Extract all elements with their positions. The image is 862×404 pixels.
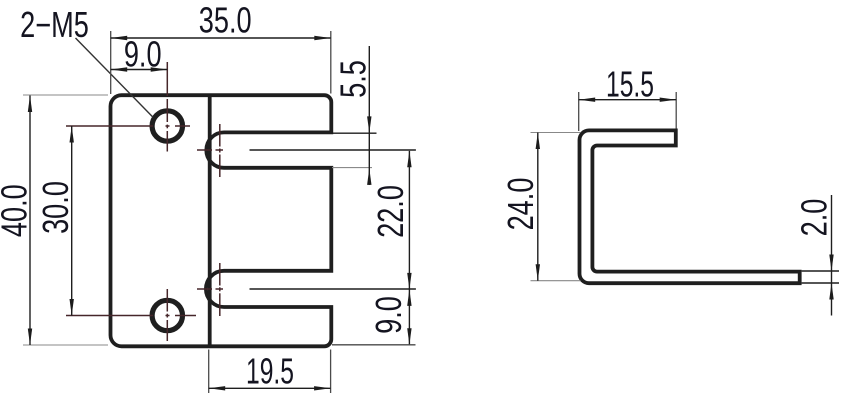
centerline slot2 vertical bbox=[219, 263, 221, 316]
dim line 9.0 top bbox=[111, 69, 168, 71]
dim 40.0 extension bottom bbox=[23, 344, 108, 346]
svg-text:2.0: 2.0 bbox=[794, 199, 835, 237]
svg-text:5.5: 5.5 bbox=[333, 60, 374, 98]
svg-text:19.5: 19.5 bbox=[246, 351, 294, 392]
dim 35.0 extension right bbox=[330, 31, 332, 94]
dim line 35.0 bbox=[111, 37, 331, 39]
slot2 centerline extension bbox=[250, 288, 416, 290]
leader line 2-M5 bbox=[76, 38, 154, 117]
dim line 2.0 bbox=[831, 195, 833, 316]
svg-text:24.0: 24.0 bbox=[500, 178, 541, 231]
svg-text:30.0: 30.0 bbox=[35, 181, 76, 234]
dim 9.0 bottom extension bbox=[332, 344, 416, 346]
centerline hole top vertical bbox=[166, 62, 168, 152]
centerline hole bottom vertical bbox=[166, 289, 168, 341]
dim 35.0 extension left bbox=[110, 31, 112, 94]
centerline slot1 vertical bbox=[219, 124, 221, 177]
hole top (M5) bbox=[152, 111, 182, 141]
dim 24.0 extension bottom bbox=[531, 280, 581, 282]
svg-text:40.0: 40.0 bbox=[0, 184, 34, 237]
dim line 30.0 bbox=[71, 126, 73, 316]
dim 2.0 extension top bbox=[802, 270, 839, 272]
dim 5.5 extension top (slot top edge) bbox=[332, 132, 377, 134]
dim line 40.0 bbox=[29, 96, 31, 346]
svg-text:2−M5: 2−M5 bbox=[20, 4, 89, 45]
dim 40.0 extension top bbox=[23, 94, 108, 96]
bracket outline side view (C channel) bbox=[579, 130, 799, 283]
centerline hole top horizontal bbox=[66, 125, 190, 127]
svg-text:9.0: 9.0 bbox=[124, 34, 162, 75]
centerline slot2 horizontal bbox=[197, 288, 223, 290]
dim 15.5 extension left bbox=[578, 92, 580, 131]
dim line 19.5 bbox=[209, 387, 331, 389]
dim 5.5 extension bottom (slot bottom edge) bbox=[332, 167, 372, 169]
bend line bbox=[208, 97, 212, 345]
svg-text:9.0: 9.0 bbox=[368, 296, 409, 334]
svg-text:22.0: 22.0 bbox=[370, 185, 411, 238]
dim line 22.0 bbox=[408, 151, 410, 290]
dim 19.5 extension right bbox=[330, 350, 332, 394]
hole bottom (M5) bbox=[152, 300, 182, 330]
centerline slot1 horizontal bbox=[197, 149, 223, 151]
dim line 9.0 right bbox=[408, 289, 410, 344]
dim 24.0 extension top bbox=[531, 132, 581, 134]
bracket outline front view bbox=[111, 95, 332, 346]
dim 2.0 extension bottom bbox=[802, 282, 839, 284]
dim 15.5 extension right bbox=[675, 92, 677, 129]
centerline hole bottom horizontal bbox=[66, 315, 196, 317]
dim line 5.5 bbox=[368, 46, 370, 185]
dim line 15.5 bbox=[579, 99, 677, 101]
svg-text:15.5: 15.5 bbox=[606, 64, 654, 105]
dim 19.5 extension left bbox=[208, 350, 210, 394]
svg-text:35.0: 35.0 bbox=[199, 0, 252, 41]
dim line 24.0 bbox=[537, 133, 539, 281]
slot1 centerline extension bbox=[250, 149, 416, 151]
